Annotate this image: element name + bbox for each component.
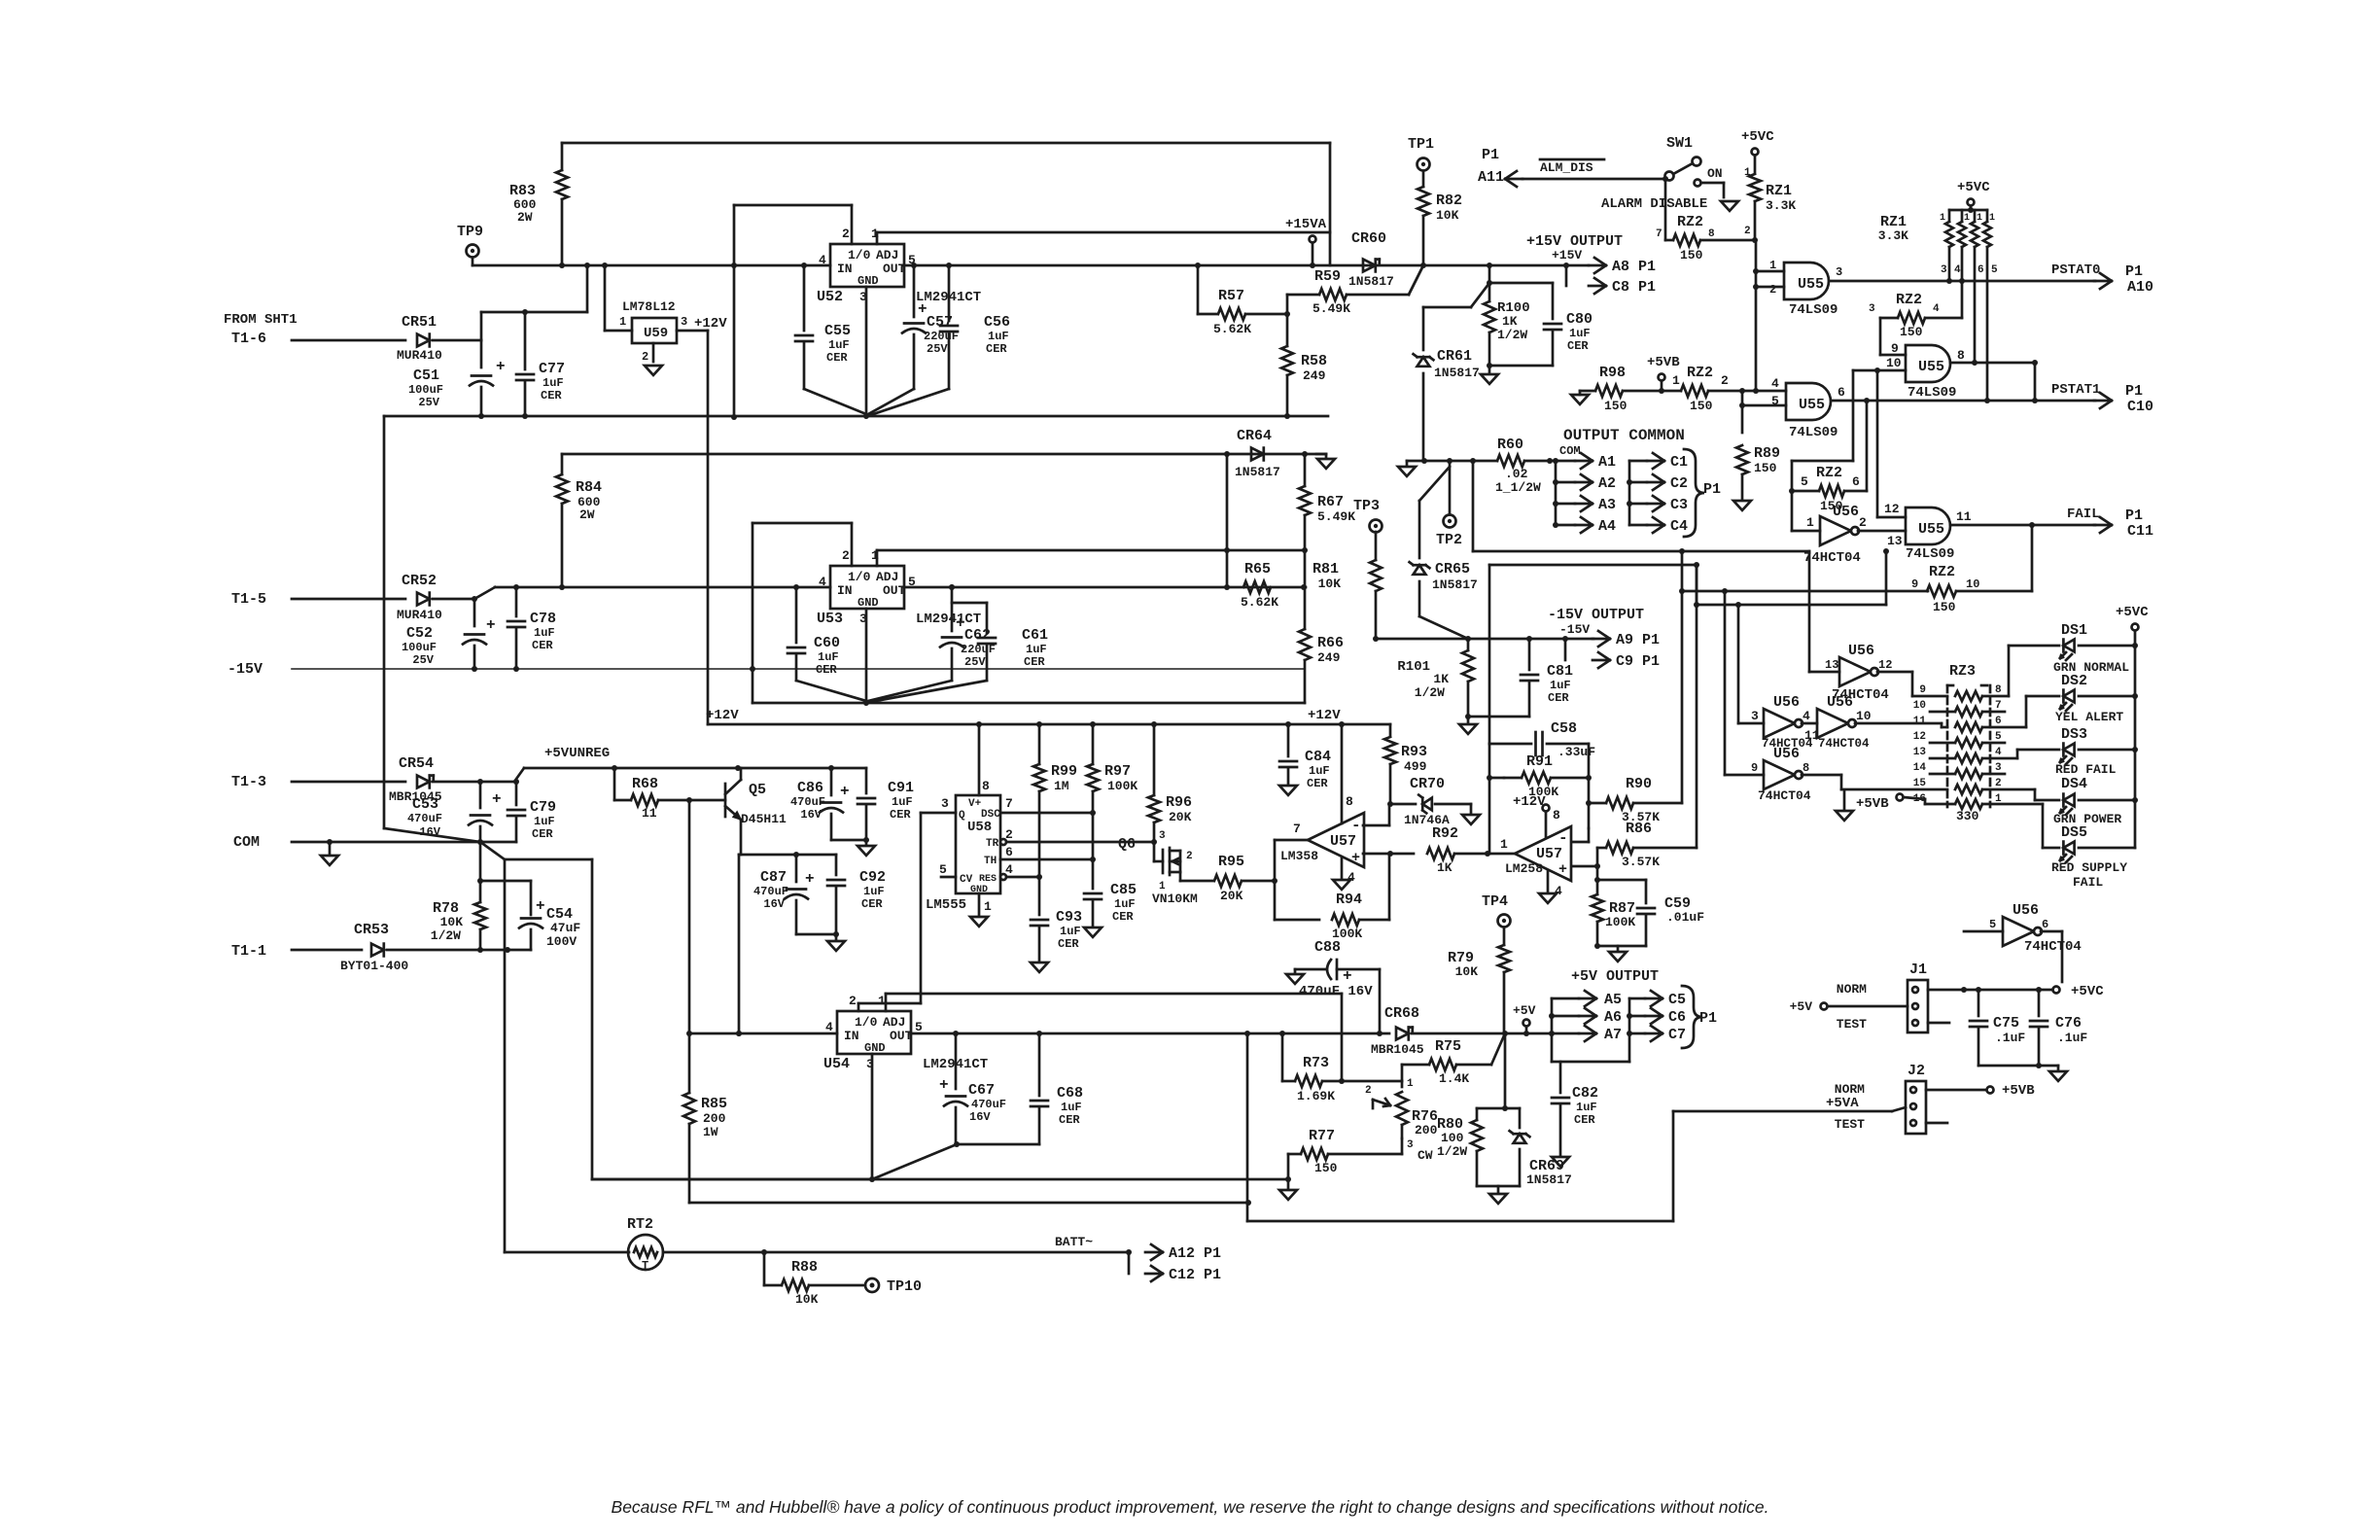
svg-text:Q5: Q5 — [749, 782, 766, 798]
connector J2 — [1835, 1063, 1926, 1134]
wire to U53 IN — [474, 584, 830, 599]
capacitor C93 — [1031, 877, 1082, 961]
capacitor C61 — [870, 603, 1048, 702]
svg-text:1/2W: 1/2W — [1415, 685, 1445, 700]
potentiometer R76 — [1342, 1078, 1438, 1163]
svg-text:470uF: 470uF — [971, 1098, 1006, 1111]
svg-text:1uF: 1uF — [818, 650, 839, 664]
svg-text:C5: C5 — [1668, 992, 1686, 1008]
svg-text:RES: RES — [979, 874, 997, 885]
svg-text:5: 5 — [1771, 394, 1779, 408]
wire U56D out — [1802, 775, 1947, 789]
diode CR51 — [397, 314, 481, 363]
svg-text:U54: U54 — [823, 1056, 850, 1072]
wire J2 norm +5VB — [1926, 1083, 2035, 1099]
svg-text:R85: R85 — [701, 1096, 727, 1112]
svg-text:100: 100 — [1441, 1131, 1464, 1145]
ground U58 — [970, 893, 988, 927]
svg-text:NORM: NORM — [1837, 982, 1867, 997]
svg-text:9: 9 — [1891, 341, 1899, 356]
svg-text:BATT~: BATT~ — [1055, 1235, 1093, 1249]
svg-text:LM2941CT: LM2941CT — [916, 612, 981, 627]
resistor RZ2 1-2 — [1662, 365, 1745, 413]
svg-text:CER: CER — [1059, 1113, 1080, 1127]
svg-text:5: 5 — [1801, 474, 1808, 489]
svg-text:1_1/2W: 1_1/2W — [1495, 480, 1541, 495]
svg-text:+5VC: +5VC — [2071, 984, 2104, 999]
capacitor C79 — [507, 779, 556, 842]
wire U53 out rail — [904, 584, 1307, 590]
svg-text:10K: 10K — [1436, 208, 1459, 223]
svg-text:3: 3 — [1751, 709, 1759, 723]
resistor R83 — [509, 143, 568, 265]
svg-text:C12 P1: C12 P1 — [1169, 1267, 1221, 1283]
svg-text:1uF: 1uF — [988, 330, 1009, 343]
diode CR64 — [1235, 428, 1280, 479]
svg-text:CR60: CR60 — [1351, 230, 1386, 247]
wire U56F out — [1877, 672, 1947, 696]
svg-text:1N5817: 1N5817 — [1434, 366, 1480, 380]
svg-text:3: 3 — [941, 796, 949, 811]
resistor R66 — [1299, 550, 1344, 703]
svg-text:4: 4 — [1995, 747, 2002, 758]
svg-text:CER: CER — [1567, 339, 1589, 353]
svg-text:-: - — [1558, 829, 1568, 847]
svg-text:U56: U56 — [1833, 504, 1859, 520]
wire A5 A6 A7 arrows — [1549, 991, 1629, 1062]
svg-text:TP3: TP3 — [1353, 498, 1380, 514]
svg-text:7: 7 — [1005, 796, 1013, 811]
svg-text:ALARM DISABLE: ALARM DISABLE — [1601, 196, 1707, 212]
wire U57B pin2 — [1572, 828, 1589, 842]
svg-text:CER: CER — [1112, 910, 1134, 924]
capacitor C87 — [753, 855, 815, 934]
ground U59 — [645, 366, 662, 375]
svg-text:R101: R101 — [1397, 659, 1430, 675]
wire SW1 col — [1664, 179, 1667, 240]
terminal +5VB — [1647, 355, 1680, 394]
capacitor C57 — [868, 262, 959, 414]
svg-text:3: 3 — [1995, 762, 2002, 774]
svg-text:+: + — [1343, 967, 1352, 985]
wire U55A pin1 — [1753, 240, 1784, 394]
svg-text:A9 P1: A9 P1 — [1616, 632, 1660, 648]
svg-text:A8 P1: A8 P1 — [1612, 259, 1656, 275]
svg-text:.1uF: .1uF — [1995, 1031, 2025, 1045]
svg-text:1/0: 1/0 — [848, 248, 871, 262]
resistor RZ2 5-6 — [1792, 401, 1867, 513]
svg-text:2: 2 — [1859, 515, 1867, 530]
svg-text:T1-5: T1-5 — [231, 591, 266, 608]
svg-text:6: 6 — [1977, 264, 1984, 276]
svg-text:+: + — [840, 783, 850, 800]
wire U55B pin10 — [1789, 367, 1906, 517]
svg-text:74LS09: 74LS09 — [1789, 425, 1837, 440]
capacitor C81 — [1468, 639, 1573, 717]
svg-text:+15VA: +15VA — [1285, 217, 1327, 232]
wire +5V rail — [911, 1031, 1389, 1036]
svg-text:C75: C75 — [1993, 1015, 2019, 1032]
wire +15V rail out — [903, 262, 1589, 268]
svg-text:.1uF: .1uF — [2057, 1031, 2087, 1045]
opamp U57A LM358 — [1280, 794, 1364, 885]
svg-text:2: 2 — [842, 227, 850, 241]
svg-text:U56: U56 — [1848, 643, 1874, 659]
svg-text:1/0: 1/0 — [848, 570, 871, 584]
diode CR65 — [1410, 467, 1478, 639]
resistor R86 — [1597, 821, 1697, 869]
svg-text:1uF: 1uF — [1309, 764, 1330, 778]
svg-text:1uF: 1uF — [1569, 327, 1591, 340]
label R80 — [1437, 1116, 1467, 1159]
svg-text:R57: R57 — [1218, 288, 1244, 304]
wire U57B out sense line — [1489, 562, 1699, 744]
svg-text:TP10: TP10 — [887, 1278, 922, 1295]
resistor R84 — [556, 454, 602, 587]
wire U58 pin4 — [1000, 874, 1042, 880]
label -15V OUTPUT — [1548, 607, 1644, 637]
svg-text:+12V: +12V — [694, 316, 727, 332]
label +5V OUTPUT — [1571, 968, 1659, 985]
resistor R90 — [1589, 776, 1682, 824]
resistor R101 — [1397, 639, 1474, 719]
svg-text:C68: C68 — [1057, 1085, 1083, 1102]
svg-text:P1: P1 — [2125, 383, 2143, 400]
wire inv3 feed line — [1694, 548, 1889, 723]
capacitor C53 — [407, 782, 502, 842]
svg-text:NORM: NORM — [1835, 1082, 1865, 1097]
svg-text:R94: R94 — [1336, 892, 1362, 908]
svg-text:C10: C10 — [2127, 399, 2153, 415]
svg-text:A7: A7 — [1604, 1027, 1622, 1043]
capacitor C80 — [1489, 283, 1592, 366]
switch SW1 — [1601, 135, 1724, 212]
resistor R93 — [1384, 724, 1427, 807]
svg-text:1uF: 1uF — [892, 795, 913, 809]
capacitor C56 — [870, 262, 1010, 415]
svg-text:3.3K: 3.3K — [1878, 228, 1908, 243]
svg-text:249: 249 — [1303, 368, 1326, 383]
wire U57A out — [1275, 840, 1319, 920]
ground U57A pin4 — [1333, 857, 1350, 890]
wire U58 pin7 — [1000, 810, 1096, 816]
svg-text:C92: C92 — [859, 869, 886, 886]
svg-text:A1: A1 — [1598, 454, 1616, 471]
wire left vert col — [752, 523, 754, 703]
svg-text:U55: U55 — [1799, 397, 1825, 413]
svg-text:CER: CER — [532, 827, 553, 841]
terminal +5VC J1 — [2053, 984, 2105, 999]
arrow A12 P1 — [1145, 1244, 1221, 1262]
svg-text:11: 11 — [1956, 509, 1972, 524]
svg-text:1K: 1K — [1437, 860, 1452, 875]
svg-text:25V: 25V — [964, 655, 986, 669]
led DS4 — [1982, 776, 2138, 826]
wire caps gnd — [1978, 1066, 2058, 1069]
svg-text:LM78L12: LM78L12 — [622, 299, 676, 314]
svg-text:.01uF: .01uF — [1666, 910, 1704, 925]
svg-text:1uF: 1uF — [1114, 897, 1136, 911]
node -15V — [227, 661, 1304, 678]
node T1-1 — [231, 943, 362, 960]
wire -15V out rail — [1373, 636, 1593, 642]
ground C85 — [1084, 927, 1102, 937]
svg-text:T1-3: T1-3 — [231, 774, 266, 790]
svg-text:74LS09: 74LS09 — [1907, 385, 1956, 401]
wire R79 TP4 — [1448, 893, 1511, 1033]
resistor R100 — [1484, 265, 1553, 368]
inverter U56D 9-8 — [1751, 746, 1811, 803]
svg-text:5: 5 — [1995, 731, 2002, 743]
svg-text:GND: GND — [857, 274, 879, 288]
diode CR54 — [389, 755, 514, 804]
arrow A9 P1 — [1592, 631, 1660, 648]
svg-text:CER: CER — [532, 639, 553, 652]
node T1-3 — [231, 774, 405, 790]
svg-text:1M: 1M — [1054, 779, 1069, 793]
svg-text:R82: R82 — [1436, 192, 1462, 209]
terminal +5V out — [1513, 1003, 1536, 1033]
ground R101 — [1459, 717, 1477, 734]
svg-text:CR68: CR68 — [1384, 1005, 1419, 1022]
svg-text:C79: C79 — [530, 799, 556, 816]
svg-text:OUT: OUT — [883, 583, 906, 598]
svg-text:+: + — [536, 897, 545, 915]
svg-text:3: 3 — [1869, 303, 1875, 315]
wire COM sense line — [1473, 461, 1809, 672]
svg-text:5.49K: 5.49K — [1317, 509, 1355, 524]
capacitor C68 — [956, 1031, 1083, 1144]
svg-text:LM555: LM555 — [926, 897, 966, 913]
svg-text:PSTAT0: PSTAT0 — [2051, 262, 2100, 278]
svg-text:COM: COM — [233, 834, 260, 851]
svg-text:IN: IN — [837, 583, 853, 598]
svg-text:U56: U56 — [1773, 746, 1800, 762]
svg-text:10K: 10K — [440, 915, 464, 929]
svg-text:1N5817: 1N5817 — [1432, 577, 1478, 592]
svg-text:CER: CER — [816, 663, 837, 677]
diode CR60 — [1348, 230, 1394, 289]
svg-text:3: 3 — [681, 315, 687, 329]
wire U58 pin8 — [978, 724, 981, 795]
node T1-5 — [231, 591, 405, 608]
ground CR64 — [1316, 454, 1335, 469]
svg-text:2: 2 — [842, 548, 850, 563]
terminal +15VA — [1285, 217, 1327, 265]
resistor R77 — [1285, 1128, 1402, 1182]
svg-text:CER: CER — [890, 808, 911, 822]
resistor R88 — [764, 1252, 865, 1307]
resistor RZ1 left — [1744, 167, 1796, 243]
ground SW1 — [1721, 201, 1738, 211]
svg-text:13: 13 — [1825, 658, 1838, 672]
label FAIL — [2067, 507, 2153, 540]
svg-text:200: 200 — [1415, 1123, 1438, 1137]
wire J1 +5V — [1790, 999, 1907, 1014]
svg-text:LM258: LM258 — [1505, 861, 1543, 876]
svg-text:CR64: CR64 — [1237, 428, 1272, 444]
svg-text:1/0: 1/0 — [855, 1015, 878, 1030]
svg-text:2: 2 — [1769, 283, 1776, 297]
svg-text:C84: C84 — [1305, 749, 1331, 765]
svg-text:ADJ: ADJ — [876, 248, 898, 262]
svg-text:CER: CER — [861, 897, 883, 911]
svg-text:1: 1 — [1672, 373, 1680, 388]
svg-text:1W: 1W — [703, 1125, 718, 1139]
resistor R91 — [1489, 753, 1592, 799]
wire U57A pin5 — [1363, 851, 1414, 857]
svg-text:16V: 16V — [800, 808, 822, 822]
svg-text:1uF: 1uF — [1576, 1101, 1597, 1114]
svg-text:2: 2 — [1186, 851, 1193, 862]
svg-text:1/2W: 1/2W — [1437, 1144, 1467, 1159]
svg-text:C81: C81 — [1547, 663, 1573, 680]
diode CR53 — [340, 922, 531, 973]
svg-text:C78: C78 — [530, 611, 556, 627]
svg-text:+5VB: +5VB — [1856, 796, 1889, 812]
svg-text:74HCT04: 74HCT04 — [1803, 550, 1861, 566]
svg-text:U57: U57 — [1330, 833, 1356, 850]
svg-text:1: 1 — [619, 315, 626, 329]
capacitor C77 — [516, 312, 565, 416]
wire +15V input rail — [472, 262, 830, 268]
wire R86 col — [1696, 565, 1698, 848]
svg-text:R91: R91 — [1526, 753, 1553, 770]
svg-text:249: 249 — [1317, 650, 1341, 665]
resistor R82 — [1417, 187, 1462, 265]
svg-text:2: 2 — [1995, 778, 2002, 789]
ground C91 — [857, 840, 875, 856]
svg-text:CER: CER — [1548, 691, 1569, 705]
svg-text:C76: C76 — [2055, 1015, 2082, 1032]
resistor R98 — [1595, 365, 1662, 413]
regulator U54 LM2941CT — [823, 994, 988, 1072]
inverter U56A — [1792, 491, 1867, 566]
wire R90 col — [1679, 548, 1928, 803]
svg-text:12: 12 — [1913, 731, 1926, 743]
svg-text:RED SUPPLY: RED SUPPLY — [2051, 860, 2127, 875]
ground U57B pin4 — [1539, 871, 1557, 903]
svg-text:C4: C4 — [1670, 518, 1688, 535]
svg-text:20K: 20K — [1220, 889, 1243, 903]
wire arrows C1-C4 — [1627, 453, 1688, 535]
svg-text:1: 1 — [1989, 213, 1995, 224]
svg-text:P1: P1 — [1699, 1010, 1717, 1027]
svg-text:R96: R96 — [1166, 794, 1192, 811]
svg-text:150: 150 — [1933, 600, 1956, 614]
svg-text:1.69K: 1.69K — [1297, 1089, 1335, 1103]
svg-text:4: 4 — [1771, 376, 1779, 391]
svg-text:A5: A5 — [1604, 992, 1622, 1008]
svg-text:C61: C61 — [1022, 627, 1048, 644]
svg-text:RZ2: RZ2 — [1929, 564, 1955, 580]
wire col to gnd bus — [592, 859, 1288, 1179]
wire U55A pin2 — [1756, 286, 1784, 289]
svg-text:8: 8 — [1346, 794, 1353, 809]
svg-text:A6: A6 — [1604, 1009, 1622, 1026]
svg-text:RZ2: RZ2 — [1687, 365, 1713, 381]
wire inv9 feed — [1722, 588, 1764, 775]
wire U57B pin3 — [1572, 848, 1600, 883]
svg-text:U56: U56 — [1773, 694, 1800, 711]
svg-text:U57: U57 — [1536, 846, 1562, 862]
ground RZ3 — [1836, 790, 1853, 821]
svg-text:15: 15 — [1913, 778, 1927, 789]
svg-text:R66: R66 — [1317, 635, 1344, 651]
ground COM — [321, 842, 338, 865]
svg-text:R68: R68 — [632, 776, 658, 792]
label PSTAT0 — [2051, 262, 2153, 296]
wire C9 branch — [1565, 639, 1660, 670]
svg-text:VN10KM: VN10KM — [1152, 892, 1198, 906]
svg-text:+12V: +12V — [706, 708, 739, 723]
capacitor C58 — [1489, 720, 1595, 759]
wire U54 GND — [592, 1054, 957, 1182]
svg-text:4: 4 — [819, 253, 826, 267]
svg-text:CR54: CR54 — [399, 755, 434, 772]
svg-text:16V: 16V — [969, 1110, 991, 1124]
svg-text:R86: R86 — [1626, 821, 1652, 837]
svg-text:+: + — [496, 358, 506, 375]
resistor R94 — [1332, 854, 1389, 941]
svg-text:TP4: TP4 — [1482, 893, 1508, 910]
svg-text:11: 11 — [642, 806, 657, 821]
wire U56A out — [1858, 531, 1906, 548]
svg-text:9: 9 — [1751, 761, 1758, 775]
capacitor C52 — [402, 599, 496, 669]
svg-text:150: 150 — [1900, 325, 1923, 339]
wire CR61 col to COM — [1422, 460, 1425, 463]
AND gate U55A — [1769, 259, 1842, 318]
svg-text:TR: TR — [986, 838, 999, 850]
wire U54 IN — [686, 1031, 837, 1036]
svg-text:8: 8 — [1802, 761, 1809, 775]
svg-text:3: 3 — [1836, 265, 1842, 279]
regulator U59 LM78L12 — [619, 299, 727, 343]
svg-text:FAIL: FAIL — [2073, 875, 2103, 890]
diode CR70 — [1390, 776, 1471, 827]
svg-text:C91: C91 — [888, 780, 914, 796]
ground C92 — [827, 934, 845, 951]
svg-text:47uF: 47uF — [550, 921, 580, 935]
svg-text:C86: C86 — [797, 780, 823, 796]
svg-text:3.57K: 3.57K — [1622, 855, 1660, 869]
resistor R81 — [1312, 532, 1382, 639]
svg-text:FAIL: FAIL — [2067, 507, 2100, 522]
svg-text:R81: R81 — [1312, 561, 1339, 577]
svg-text:ADJ: ADJ — [883, 1015, 905, 1030]
svg-text:10: 10 — [1913, 700, 1926, 712]
capacitor C85 — [1084, 859, 1137, 926]
svg-text:10K: 10K — [1455, 964, 1479, 979]
svg-text:R98: R98 — [1599, 365, 1626, 381]
label COM arrows A1-A4 — [1553, 444, 1616, 535]
svg-text:C88: C88 — [1314, 939, 1341, 956]
node COM — [233, 834, 516, 851]
svg-text:COM: COM — [1559, 444, 1581, 458]
svg-text:R89: R89 — [1754, 445, 1780, 462]
svg-text:+5VB: +5VB — [1647, 355, 1680, 370]
label CR69 — [1526, 1158, 1572, 1187]
svg-text:10K: 10K — [1318, 577, 1342, 591]
svg-text:OUTPUT COMMON: OUTPUT COMMON — [1563, 427, 1685, 444]
svg-text:1K: 1K — [1433, 672, 1449, 686]
terminal +12V U57B — [1513, 794, 1550, 837]
svg-text:A12 P1: A12 P1 — [1169, 1245, 1221, 1262]
led DS2 — [1982, 673, 2138, 727]
connector J1 — [1837, 962, 1928, 1032]
wire U58 pin6 — [1000, 857, 1096, 862]
